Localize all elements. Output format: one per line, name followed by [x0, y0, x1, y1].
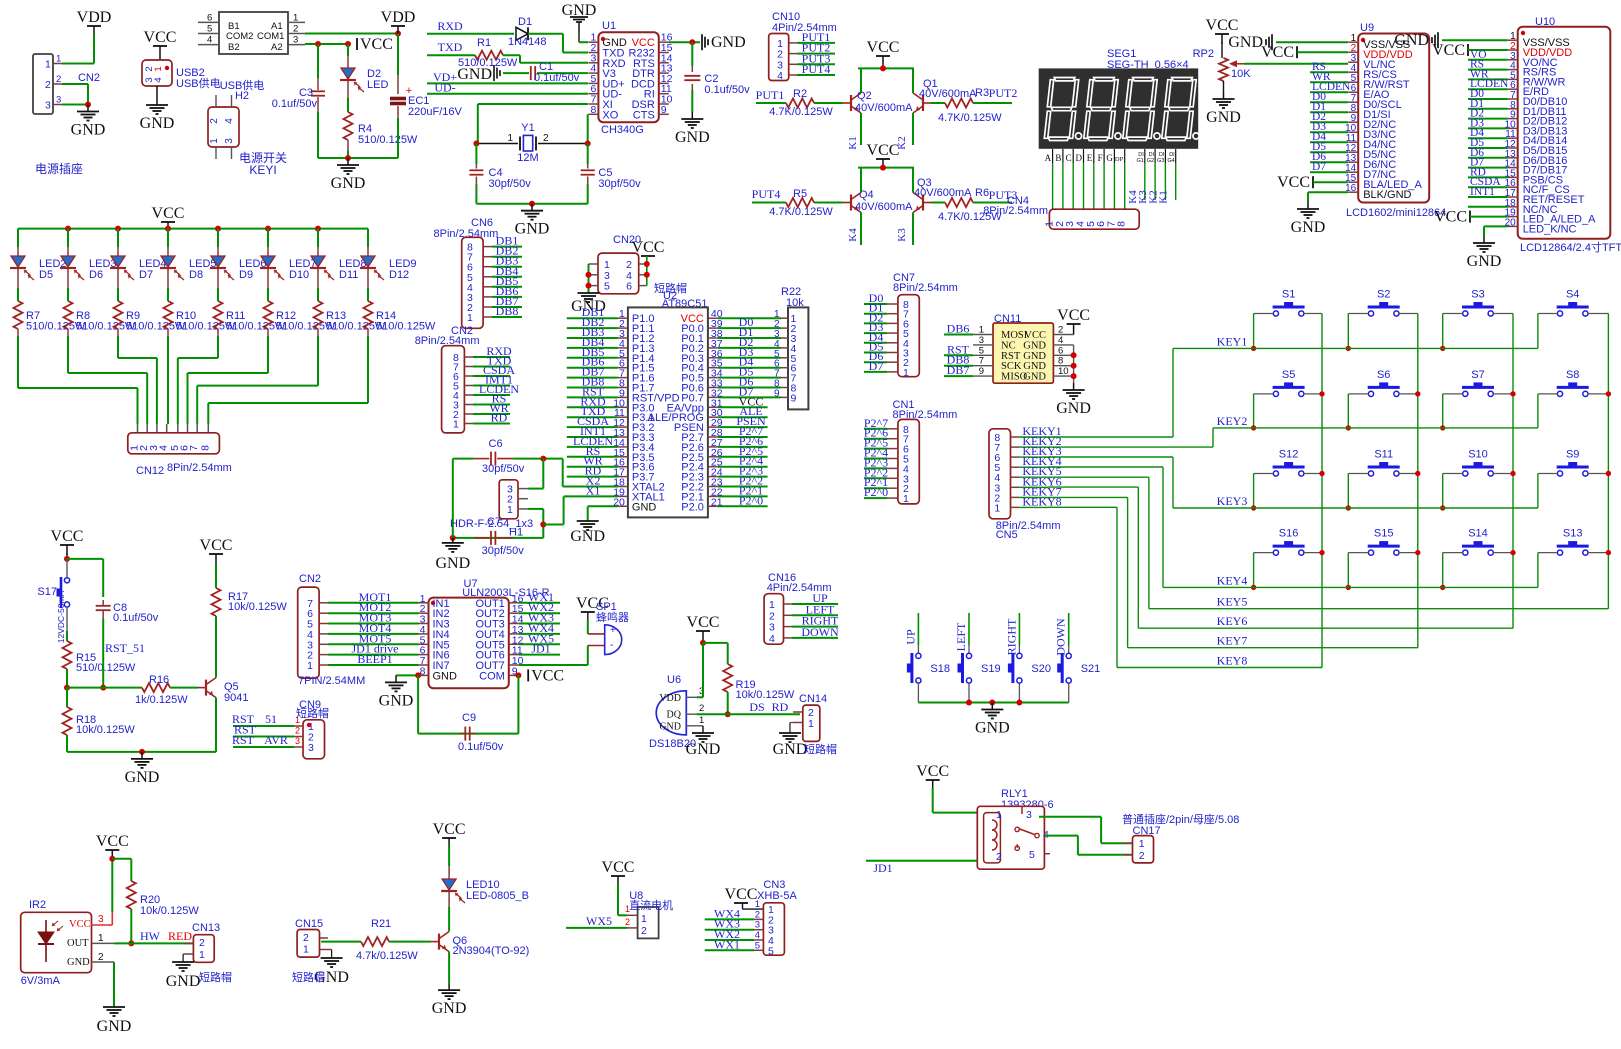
svg-text:3: 3 — [45, 100, 51, 112]
svg-text:JD1: JD1 — [531, 642, 550, 656]
svg-text:R16: R16 — [149, 674, 169, 686]
svg-text:7: 7 — [979, 356, 984, 367]
svg-text:C9: C9 — [462, 712, 476, 724]
svg-text:RD: RD — [491, 411, 508, 425]
svg-text:1: 1 — [979, 325, 984, 336]
svg-text:+: + — [610, 625, 616, 636]
svg-text:0.1uf/50v: 0.1uf/50v — [113, 612, 159, 624]
svg-text:COM: COM — [479, 670, 505, 682]
svg-text:CN2: CN2 — [299, 573, 321, 585]
svg-text:1k/0.125W: 1k/0.125W — [135, 694, 188, 706]
svg-text:PUT2: PUT2 — [989, 86, 1018, 100]
svg-text:8: 8 — [591, 104, 597, 116]
svg-text:6: 6 — [207, 12, 212, 23]
svg-text:KEY8: KEY8 — [1217, 654, 1248, 668]
svg-text:VCC: VCC — [867, 39, 900, 56]
svg-text:40V/600mA: 40V/600mA — [855, 102, 913, 114]
svg-text:1: 1 — [996, 809, 1002, 821]
svg-text:30pf/50v: 30pf/50v — [482, 463, 525, 475]
svg-text:8Pin/2.54mm: 8Pin/2.54mm — [893, 282, 958, 294]
svg-text:D9: D9 — [239, 269, 253, 281]
svg-text:1: 1 — [699, 715, 704, 726]
svg-text:JD1: JD1 — [873, 861, 892, 875]
svg-text:CN13: CN13 — [192, 922, 220, 934]
svg-text:D5: D5 — [39, 269, 53, 281]
svg-text:DOWN: DOWN — [1054, 618, 1068, 656]
svg-text:GND: GND — [515, 221, 550, 238]
svg-text:5: 5 — [1029, 849, 1035, 861]
svg-text:3: 3 — [295, 736, 300, 746]
svg-text:C6: C6 — [489, 438, 503, 450]
svg-text:9: 9 — [774, 388, 780, 399]
svg-text:1N4148: 1N4148 — [508, 36, 547, 48]
svg-text:C: C — [1066, 153, 1072, 163]
svg-text:0.1uf/50v: 0.1uf/50v — [704, 84, 750, 96]
svg-text:U1: U1 — [602, 20, 616, 32]
svg-text:12M: 12M — [517, 152, 538, 164]
svg-text:D: D — [1076, 153, 1083, 163]
svg-text:GND: GND — [1023, 340, 1046, 351]
svg-text:CH340G: CH340G — [601, 124, 644, 136]
svg-text:S4: S4 — [1566, 289, 1579, 301]
svg-text:2: 2 — [1058, 325, 1063, 336]
svg-text:R1: R1 — [477, 37, 491, 49]
svg-text:Y1: Y1 — [521, 122, 534, 134]
svg-text:NC: NC — [1001, 340, 1016, 351]
svg-text:KEY1: KEY1 — [1217, 334, 1248, 348]
svg-text:1: 1 — [453, 419, 459, 431]
svg-text:WX1: WX1 — [714, 937, 740, 951]
svg-text:8: 8 — [1058, 356, 1063, 367]
svg-text:GND: GND — [1056, 400, 1091, 417]
svg-text:GND: GND — [1206, 109, 1241, 126]
svg-text:1: 1 — [293, 12, 298, 23]
svg-text:8: 8 — [1116, 221, 1128, 227]
svg-text:RST: RST — [232, 733, 255, 747]
svg-text:DQ: DQ — [667, 710, 682, 721]
svg-text:A: A — [1045, 153, 1052, 163]
svg-text:30pf/50v: 30pf/50v — [482, 545, 525, 557]
svg-text:DB6: DB6 — [947, 322, 970, 336]
svg-text:40V/600mA: 40V/600mA — [919, 88, 977, 100]
svg-text:3: 3 — [293, 35, 298, 46]
svg-text:30pf/50v: 30pf/50v — [489, 178, 532, 190]
svg-text:1: 1 — [903, 493, 909, 505]
svg-text:8Pin/2.54mm: 8Pin/2.54mm — [167, 462, 232, 474]
svg-text:G4: G4 — [1167, 158, 1174, 164]
svg-text:H2: H2 — [235, 90, 249, 102]
svg-text:B: B — [1055, 153, 1061, 163]
svg-text:VCC: VCC — [531, 667, 564, 684]
svg-text:Q2: Q2 — [857, 90, 872, 102]
svg-text:6: 6 — [626, 281, 632, 293]
svg-text:UP: UP — [903, 629, 917, 645]
svg-text:U9: U9 — [1360, 22, 1374, 34]
svg-text:2: 2 — [625, 917, 630, 927]
svg-text:1: 1 — [507, 133, 513, 144]
svg-text:8Pin/2.54mm: 8Pin/2.54mm — [996, 520, 1061, 532]
svg-text:4: 4 — [777, 70, 783, 82]
svg-text:KEY3: KEY3 — [1217, 494, 1248, 508]
svg-text:VCC: VCC — [200, 537, 233, 554]
svg-text:GND: GND — [562, 2, 597, 19]
svg-text:GND: GND — [166, 973, 201, 990]
svg-text:1: 1 — [808, 718, 814, 730]
svg-text:GND: GND — [1023, 372, 1046, 383]
svg-text:COM2: COM2 — [226, 31, 253, 42]
svg-text:12VDC-50mA: 12VDC-50mA — [56, 590, 66, 643]
svg-text:COM1: COM1 — [257, 31, 284, 42]
svg-text:10: 10 — [1058, 366, 1069, 377]
svg-text:VCC: VCC — [360, 36, 393, 53]
svg-text:4.7K/0.125W: 4.7K/0.125W — [769, 106, 833, 118]
svg-text:S10: S10 — [1468, 449, 1488, 461]
svg-text:D8: D8 — [189, 269, 203, 281]
svg-text:5: 5 — [979, 345, 984, 356]
svg-text:U10: U10 — [1535, 16, 1555, 28]
svg-text:2N3904(TO-92): 2N3904(TO-92) — [453, 945, 530, 957]
svg-text:2: 2 — [641, 925, 647, 937]
svg-text:1: 1 — [507, 504, 513, 516]
svg-text:GND: GND — [97, 1018, 132, 1035]
svg-text:1: 1 — [153, 66, 164, 71]
svg-text:PUT1: PUT1 — [756, 88, 785, 102]
svg-text:GND: GND — [457, 66, 492, 83]
svg-text:S14: S14 — [1468, 528, 1488, 540]
svg-text:S18: S18 — [930, 663, 950, 675]
svg-text:S17: S17 — [37, 586, 57, 598]
svg-text:K1: K1 — [1158, 190, 1170, 203]
svg-text:IR2: IR2 — [29, 899, 46, 911]
svg-text:VDD: VDD — [77, 9, 112, 26]
svg-text:VCC: VCC — [144, 29, 177, 46]
svg-text:E: E — [1087, 153, 1093, 163]
svg-text:GND: GND — [686, 741, 721, 758]
svg-text:KEKY8: KEKY8 — [1022, 494, 1061, 508]
svg-text:R5: R5 — [793, 188, 807, 200]
svg-text:GND: GND — [140, 115, 175, 132]
svg-text:GND: GND — [1023, 351, 1046, 362]
svg-text:4.7K/0.125W: 4.7K/0.125W — [938, 112, 1002, 124]
svg-text:VCC: VCC — [433, 821, 466, 838]
svg-text:S11: S11 — [1374, 449, 1393, 461]
svg-text:BEEP1: BEEP1 — [357, 652, 392, 666]
svg-text:D12: D12 — [389, 269, 409, 281]
svg-text:1: 1 — [467, 312, 473, 324]
svg-text:G2: G2 — [1147, 158, 1154, 164]
svg-text:GND: GND — [711, 34, 746, 51]
svg-text:CN15: CN15 — [295, 918, 323, 930]
svg-text:2: 2 — [1139, 850, 1145, 862]
svg-text:4: 4 — [769, 633, 775, 645]
svg-text:D7: D7 — [1312, 161, 1326, 173]
svg-text:VCC: VCC — [1432, 42, 1465, 59]
svg-text:1: 1 — [45, 59, 51, 71]
svg-text:9: 9 — [791, 392, 797, 404]
svg-text:3: 3 — [224, 138, 235, 144]
svg-text:DS: DS — [749, 700, 764, 714]
svg-text:VCC: VCC — [96, 833, 129, 850]
svg-text:VCC: VCC — [1261, 44, 1294, 61]
svg-text:VCC: VCC — [867, 142, 900, 159]
svg-text:S3: S3 — [1471, 289, 1484, 301]
svg-text:GND: GND — [71, 122, 106, 139]
svg-text:短路帽: 短路帽 — [292, 970, 325, 984]
svg-text:3: 3 — [308, 742, 314, 754]
svg-text:AVR: AVR — [264, 733, 288, 747]
svg-text:短路帽: 短路帽 — [199, 970, 232, 984]
svg-text:6V/3mA: 6V/3mA — [21, 975, 61, 987]
svg-text:S15: S15 — [1374, 528, 1394, 540]
svg-text:VCC: VCC — [725, 886, 758, 903]
svg-text:DOWN: DOWN — [801, 625, 839, 639]
svg-text:D6: D6 — [89, 269, 103, 281]
svg-text:2: 2 — [295, 726, 300, 736]
svg-text:1: 1 — [295, 715, 300, 725]
svg-text:普通插座/2pin/母座/5.08: 普通插座/2pin/母座/5.08 — [1122, 812, 1239, 826]
svg-text:VCC: VCC — [1024, 330, 1046, 341]
svg-text:P2^0: P2^0 — [739, 493, 763, 507]
svg-text:10k/0.125W: 10k/0.125W — [228, 601, 287, 613]
svg-text:H1: H1 — [509, 527, 523, 539]
svg-text:S9: S9 — [1566, 449, 1579, 461]
svg-text:LCD1602/mini12864: LCD1602/mini12864 — [1346, 207, 1446, 219]
svg-text:1: 1 — [1139, 838, 1145, 850]
svg-text:2: 2 — [199, 937, 205, 949]
svg-text:电源插座: 电源插座 — [35, 161, 83, 176]
svg-text:3: 3 — [979, 335, 984, 346]
svg-text:GND: GND — [379, 692, 414, 709]
svg-text:3: 3 — [769, 622, 775, 634]
svg-text:S16: S16 — [1279, 528, 1299, 540]
svg-text:G3: G3 — [1157, 158, 1164, 164]
svg-text:4: 4 — [1058, 335, 1063, 346]
svg-text:VCC: VCC — [916, 763, 949, 780]
svg-text:PUT4: PUT4 — [752, 187, 781, 201]
svg-text:2: 2 — [543, 133, 549, 144]
svg-text:S6: S6 — [1377, 369, 1390, 381]
svg-text:9041: 9041 — [224, 692, 248, 704]
svg-text:GND: GND — [433, 670, 458, 682]
svg-text:30pf/50v: 30pf/50v — [598, 178, 641, 190]
svg-text:1: 1 — [903, 367, 909, 379]
svg-text:-: - — [610, 640, 613, 651]
svg-text:XO: XO — [602, 109, 618, 121]
svg-text:GND: GND — [435, 555, 470, 572]
svg-text:S19: S19 — [981, 663, 1001, 675]
svg-text:6: 6 — [1058, 345, 1063, 356]
svg-text:1: 1 — [56, 54, 61, 65]
svg-text:GND: GND — [1023, 361, 1046, 372]
svg-text:2: 2 — [293, 24, 298, 35]
svg-text:D7: D7 — [139, 269, 153, 281]
svg-text:2: 2 — [769, 610, 775, 622]
svg-text:PUT4: PUT4 — [802, 62, 831, 76]
svg-text:GND: GND — [1394, 32, 1429, 49]
svg-text:GND: GND — [1467, 253, 1502, 270]
svg-text:K4: K4 — [847, 228, 859, 242]
svg-text:UD-: UD- — [434, 81, 455, 95]
svg-text:G1: G1 — [1136, 158, 1143, 164]
svg-text:LCD12864/2.4寸TFT: LCD12864/2.4寸TFT — [1520, 240, 1621, 254]
svg-text:GND: GND — [1291, 219, 1326, 236]
svg-text:GND: GND — [632, 501, 657, 513]
svg-text:7PIN/2.54MM: 7PIN/2.54MM — [298, 675, 365, 687]
svg-text:GND: GND — [975, 720, 1010, 737]
svg-text:S5: S5 — [1282, 369, 1295, 381]
svg-text:4: 4 — [207, 35, 212, 46]
svg-text:VDD: VDD — [381, 9, 416, 26]
svg-text:GND: GND — [331, 175, 366, 192]
svg-text:U6: U6 — [667, 674, 681, 686]
svg-text:4.7k/0.125W: 4.7k/0.125W — [356, 950, 418, 962]
svg-text:S2: S2 — [1377, 289, 1390, 301]
svg-text:KEYI: KEYI — [249, 163, 276, 177]
svg-text:D11: D11 — [339, 269, 358, 281]
svg-text:10K: 10K — [1231, 68, 1251, 80]
svg-text:4.7K/0.125W: 4.7K/0.125W — [769, 206, 833, 218]
svg-text:GND: GND — [67, 957, 90, 968]
svg-text:2: 2 — [56, 74, 61, 85]
svg-text:VCC: VCC — [1206, 17, 1239, 34]
svg-text:XHB-5A: XHB-5A — [757, 890, 797, 902]
svg-text:1: 1 — [641, 913, 647, 925]
svg-text:K1: K1 — [847, 136, 859, 149]
svg-text:BLK/GND: BLK/GND — [1363, 189, 1411, 201]
svg-text:D7: D7 — [869, 359, 884, 373]
svg-text:K3: K3 — [896, 228, 908, 242]
svg-text:OUT: OUT — [67, 938, 89, 949]
svg-text:S7: S7 — [1471, 369, 1484, 381]
svg-text:DP: DP — [1115, 156, 1124, 163]
svg-text:P2.0: P2.0 — [681, 501, 704, 513]
svg-text:VCC: VCC — [152, 205, 185, 222]
svg-text:A2: A2 — [271, 42, 283, 53]
svg-text:510/0.125W: 510/0.125W — [358, 134, 418, 146]
svg-text:RED: RED — [168, 929, 192, 943]
svg-text:INT1: INT1 — [1470, 186, 1495, 198]
svg-text:WX5: WX5 — [586, 914, 612, 928]
svg-text:2: 2 — [209, 118, 220, 124]
svg-text:RST: RST — [1001, 351, 1021, 362]
svg-text:P2^0: P2^0 — [864, 485, 888, 499]
svg-text:CTS: CTS — [633, 109, 655, 121]
svg-text:R6: R6 — [975, 187, 989, 199]
svg-text:RST_51: RST_51 — [105, 641, 145, 655]
svg-text:LEFT: LEFT — [954, 622, 968, 651]
svg-text:VCC: VCC — [632, 239, 665, 256]
svg-text:GND: GND — [659, 721, 681, 732]
svg-text:VCC: VCC — [1277, 174, 1310, 191]
svg-text:5: 5 — [604, 281, 610, 293]
svg-text:VCC: VCC — [69, 919, 91, 930]
svg-text:RIGHT: RIGHT — [1004, 618, 1018, 655]
svg-text:S12: S12 — [1279, 449, 1299, 461]
svg-text:510/0.125W: 510/0.125W — [376, 321, 436, 333]
svg-text:R3: R3 — [975, 87, 989, 99]
svg-text:3: 3 — [1026, 809, 1032, 821]
svg-text:1: 1 — [994, 502, 1000, 514]
svg-text:1: 1 — [307, 660, 313, 672]
svg-text:8: 8 — [199, 445, 211, 451]
svg-text:5: 5 — [207, 24, 212, 35]
svg-text:KEY7: KEY7 — [1217, 634, 1248, 648]
svg-text:SCK: SCK — [1001, 361, 1022, 372]
svg-text:GND: GND — [1228, 34, 1263, 51]
svg-text:510/0.125W: 510/0.125W — [76, 662, 136, 674]
svg-text:KEY5: KEY5 — [1217, 595, 1248, 609]
svg-text:51: 51 — [265, 712, 277, 726]
svg-text:2: 2 — [303, 932, 309, 944]
svg-text:GND: GND — [675, 129, 710, 146]
svg-text:X1: X1 — [586, 483, 601, 497]
svg-text:S13: S13 — [1563, 528, 1583, 540]
svg-text:0.1uf/50v: 0.1uf/50v — [458, 741, 504, 753]
svg-text:D1: D1 — [518, 16, 532, 28]
svg-text:1: 1 — [303, 944, 309, 956]
svg-text:0.1uf/50v: 0.1uf/50v — [534, 72, 580, 84]
svg-text:HW: HW — [140, 929, 161, 943]
svg-text:KEY6: KEY6 — [1217, 614, 1248, 628]
svg-text:40V/600mA: 40V/600mA — [914, 187, 972, 199]
svg-text:R21: R21 — [371, 918, 391, 930]
svg-text:1: 1 — [209, 138, 220, 144]
svg-text:3: 3 — [56, 95, 61, 106]
svg-text:3: 3 — [98, 914, 104, 925]
svg-text:GND: GND — [773, 741, 808, 758]
svg-text:5: 5 — [768, 945, 774, 957]
svg-text:CN14: CN14 — [799, 693, 827, 705]
svg-text:短路帽: 短路帽 — [296, 706, 329, 720]
svg-text:220uF/16V: 220uF/16V — [408, 106, 462, 118]
svg-text:4: 4 — [153, 77, 164, 82]
svg-text:1: 1 — [98, 933, 104, 944]
svg-text:1: 1 — [625, 904, 630, 914]
svg-text:1: 1 — [769, 599, 775, 611]
svg-text:短路帽: 短路帽 — [804, 742, 837, 756]
svg-text:RD: RD — [772, 700, 789, 714]
svg-text:4: 4 — [224, 118, 235, 124]
svg-text:10k/0.125W: 10k/0.125W — [76, 724, 135, 736]
svg-text:LED_K/NC: LED_K/NC — [1523, 223, 1577, 235]
svg-text:D10: D10 — [289, 269, 309, 281]
svg-text:G: G — [1106, 153, 1113, 163]
svg-text:DB8: DB8 — [496, 304, 519, 318]
svg-text:VCC: VCC — [1434, 209, 1467, 226]
svg-text:S8: S8 — [1566, 369, 1579, 381]
svg-text:KEY4: KEY4 — [1217, 573, 1248, 587]
svg-text:1: 1 — [199, 949, 205, 961]
svg-text:LED: LED — [367, 79, 388, 91]
svg-text:CN2: CN2 — [78, 72, 100, 84]
svg-text:F: F — [1098, 153, 1103, 163]
svg-text:TXD: TXD — [438, 40, 463, 54]
svg-text:CN12: CN12 — [136, 465, 164, 477]
svg-text:8Pin/2.54mm: 8Pin/2.54mm — [983, 205, 1048, 217]
svg-text:S20: S20 — [1031, 663, 1051, 675]
svg-text:S21: S21 — [1081, 663, 1101, 675]
svg-text:VCC: VCC — [1057, 307, 1090, 324]
svg-text:VCC: VCC — [51, 528, 84, 545]
svg-text:9: 9 — [979, 366, 984, 377]
svg-text:S1: S1 — [1282, 289, 1295, 301]
svg-text:蜂鸣器: 蜂鸣器 — [596, 610, 629, 624]
svg-text:KEY2: KEY2 — [1217, 414, 1248, 428]
svg-text:GND: GND — [570, 528, 605, 545]
svg-text:9: 9 — [661, 104, 667, 116]
svg-text:VCC: VCC — [687, 614, 720, 631]
svg-text:2: 2 — [996, 851, 1002, 863]
